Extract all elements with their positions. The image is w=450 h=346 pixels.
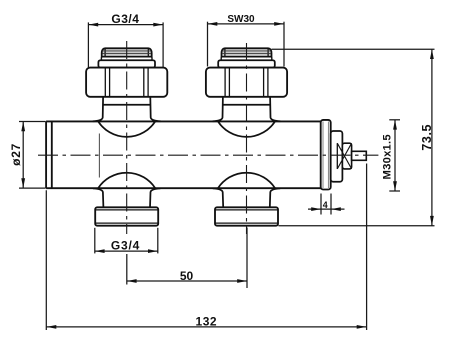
top-right neck [213,97,281,122]
pipe body outline [46,121,321,188]
top-left collar [101,57,152,61]
pipe centerline [38,154,378,156]
bottom-right bell [213,188,280,207]
dim G3/4 top [88,22,163,67]
top-left neck [93,97,161,122]
fitting centerline left [126,41,128,234]
dim 73.5 right [272,49,435,226]
top-left tailpiece thread cap [102,48,152,57]
dim dia27 left [19,122,46,189]
dim M30x1.5 [389,120,400,191]
top-left bore arc in pipe [98,122,155,137]
bottom-left bore arc in pipe [98,173,155,188]
valve bonnet block [331,131,343,182]
bottom-right bore arc in pipe [218,173,275,188]
svg-text:132: 132 [196,314,218,328]
dim 132 bottom [46,164,366,331]
top-right collar [221,57,272,61]
dim SW30 top [208,22,285,67]
bottom-left thread band G3/4 [95,207,158,225]
valve spindle [352,151,367,160]
top-right bore arc in pipe [218,122,275,137]
svg-text:G3/4: G3/4 [111,238,140,252]
svg-text:73.5: 73.5 [420,124,434,151]
fitting centerline right [246,43,248,234]
svg-text:M30x1.5: M30x1.5 [382,134,394,179]
svg-text:50: 50 [180,269,194,283]
valve flange [321,120,331,190]
bottom-left bell [93,188,160,207]
bottom-right thread band [215,207,278,225]
top-left upper band [98,60,155,67]
dim 50 bottom [127,228,247,289]
dim 4 flange width [308,194,345,215]
top-right union nut [206,68,287,97]
top-right upper band [218,60,275,67]
svg-text:G3/4: G3/4 [111,12,139,26]
svg-text:ø27: ø27 [9,143,23,166]
dim G3/4 bottom [95,228,158,254]
top-right tailpiece thread cap SW30 [222,48,272,57]
internal bore end line [98,134,100,178]
top-left union nut [86,68,167,97]
gland cross X [337,143,351,169]
svg-text:4: 4 [323,200,328,210]
svg-text:SW30: SW30 [227,14,255,25]
gland step line [336,143,338,169]
valve gland [342,143,351,169]
